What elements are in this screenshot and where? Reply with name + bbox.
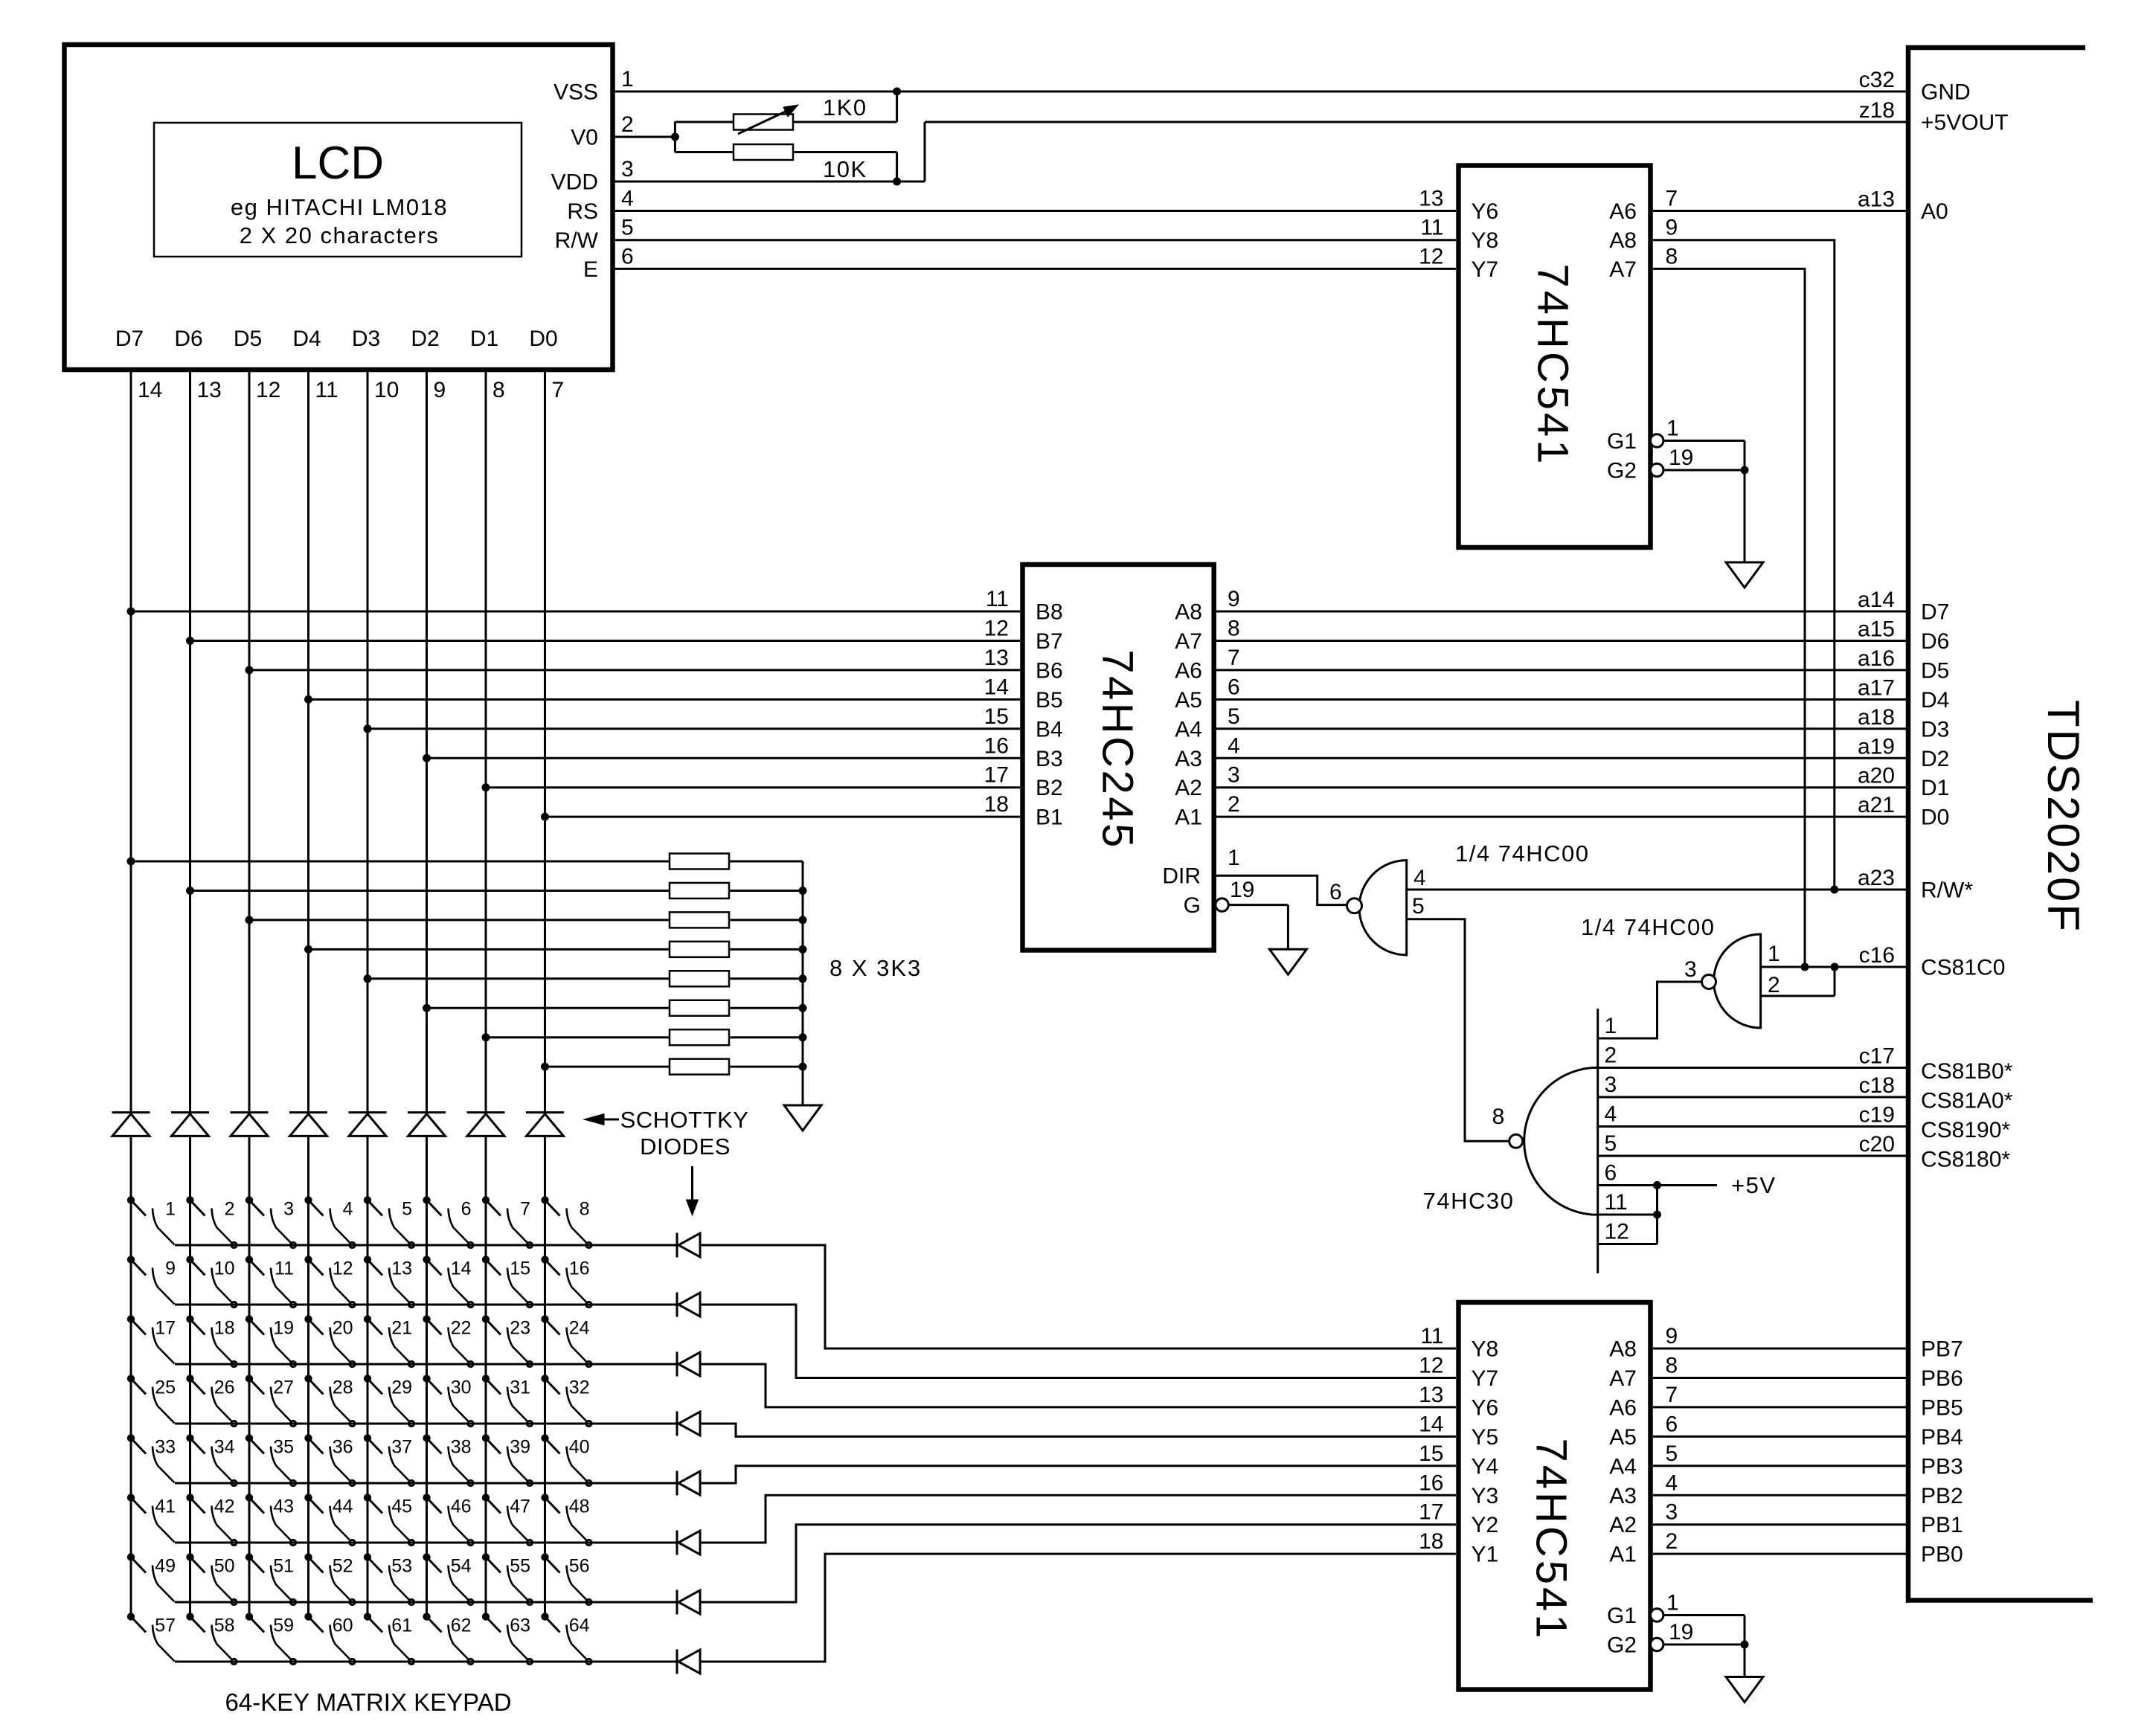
svg-text:1/4 74HC00: 1/4 74HC00 [1581, 914, 1715, 940]
svg-text:A2: A2 [1609, 1513, 1637, 1537]
svg-text:12: 12 [1419, 244, 1443, 269]
svg-text:c20: c20 [1859, 1132, 1895, 1157]
svg-text:VDD: VDD [551, 170, 598, 195]
wire D7 column [127, 370, 135, 1617]
svg-text:74HC541: 74HC541 [1529, 263, 1577, 466]
wire D4 to 74HC245 B5 [309, 698, 1021, 701]
key switch 18 [187, 1316, 237, 1367]
svg-text:5: 5 [1666, 1441, 1678, 1466]
74HC541 U1 right pins A6 A8 A7 [1609, 187, 1678, 282]
svg-text:PB4: PB4 [1921, 1425, 1963, 1450]
wire keypad row 1 [175, 1244, 677, 1247]
svg-text:8: 8 [1228, 616, 1240, 640]
wire keypad row 4 to 74HC541 Y5 [700, 1424, 1456, 1436]
diode schottky column D7 [112, 1113, 150, 1137]
svg-text:a18: a18 [1858, 705, 1895, 730]
svg-text:74HC541: 74HC541 [1527, 1438, 1576, 1641]
diode keypad row 6 [677, 1531, 700, 1555]
svg-text:R/W*: R/W* [1921, 878, 1973, 903]
trimmer 1K0 [675, 91, 896, 134]
svg-text:21: 21 [391, 1318, 412, 1339]
svg-text:22: 22 [451, 1318, 472, 1339]
wire D5 to pull-up resistor 3 [249, 919, 670, 921]
key switch 23 [482, 1316, 532, 1367]
svg-text:A7: A7 [1609, 257, 1637, 282]
IC U4 74HC30 8-input NAND body [1423, 1009, 1598, 1273]
svg-text:9: 9 [165, 1258, 176, 1279]
svg-text:A4: A4 [1609, 1454, 1637, 1479]
svg-text:53: 53 [391, 1556, 412, 1577]
svg-text:60: 60 [333, 1616, 353, 1636]
svg-text:55: 55 [510, 1556, 530, 1577]
diode keypad row 5 [677, 1471, 700, 1496]
wire resistor common bus [799, 861, 806, 1105]
IC U1 74HC541 body [1459, 166, 1651, 548]
svg-text:1: 1 [621, 67, 634, 91]
74HC245 DIR pin [1162, 846, 1347, 905]
svg-text:27: 27 [273, 1377, 294, 1398]
svg-text:12: 12 [984, 616, 1009, 640]
svg-text:43: 43 [273, 1497, 294, 1517]
wire D6 to pull-up resistor 2 [190, 890, 670, 892]
svg-text:11: 11 [275, 1258, 294, 1279]
svg-text:D6: D6 [174, 327, 202, 351]
svg-text:A0: A0 [1921, 199, 1948, 224]
diode keypad row 4 [677, 1412, 700, 1436]
svg-text:4: 4 [1605, 1102, 1617, 1127]
key switch 59 [246, 1613, 295, 1665]
wire D0 to 74HC245 B1 [545, 816, 1021, 818]
diode schottky column D2 [408, 1113, 446, 1137]
svg-text:Y3: Y3 [1472, 1484, 1499, 1508]
svg-text:6: 6 [621, 244, 634, 269]
svg-text:1: 1 [165, 1199, 176, 1220]
key switch 32 [542, 1375, 591, 1427]
key switch 44 [305, 1494, 355, 1546]
74HC541 U5 right pins A8-A1 [1609, 1324, 1678, 1567]
svg-text:1/4 74HC00: 1/4 74HC00 [1455, 840, 1589, 867]
svg-text:13: 13 [197, 378, 222, 402]
svg-text:58: 58 [214, 1616, 235, 1636]
wire GND net VSS to TDS c32 [613, 88, 1907, 95]
key switch 58 [187, 1613, 237, 1665]
wire D1 to 74HC245 B2 [486, 786, 1020, 788]
ground 74HC541 U1 G [1726, 562, 1763, 588]
svg-text:D2: D2 [1921, 747, 1949, 771]
svg-text:14: 14 [138, 378, 162, 402]
key switch 64 [542, 1613, 591, 1665]
svg-text:Y5: Y5 [1472, 1425, 1499, 1450]
LCD right pin names and numbers [551, 67, 634, 282]
svg-text:A5: A5 [1175, 688, 1202, 713]
svg-text:37: 37 [391, 1437, 412, 1458]
wire D7 to pull-up resistor 1 [131, 861, 670, 863]
wire keypad row 8 to 74HC541 Y1 [700, 1554, 1456, 1662]
svg-text:9: 9 [1666, 1324, 1678, 1348]
key switch 51 [246, 1554, 295, 1605]
wire D6 column [187, 370, 194, 1617]
key switch 7 [482, 1197, 532, 1248]
svg-text:7: 7 [552, 378, 565, 402]
svg-text:8: 8 [1666, 244, 1678, 269]
svg-text:+5VOUT: +5VOUT [1921, 111, 2009, 135]
IC U5 74HC541 body [1459, 1302, 1651, 1690]
wire D3 to 74HC245 B4 [368, 727, 1020, 730]
resistor 3K3 #3 [670, 912, 803, 928]
svg-text:Y8: Y8 [1472, 1337, 1499, 1362]
svg-text:Y8: Y8 [1472, 228, 1499, 253]
ground resistor bus [784, 1105, 821, 1131]
svg-text:B8: B8 [1036, 600, 1063, 625]
wire 74HC541 A4 to TDS PB3 [1653, 1465, 1906, 1467]
wire NAND pin4 R/W* to TDS a23 [1407, 886, 1906, 893]
wire E to 74HC541 Y7 [613, 268, 1457, 270]
svg-text:9: 9 [1666, 216, 1678, 240]
key switch 1 [127, 1197, 176, 1245]
svg-text:30: 30 [451, 1377, 472, 1398]
wire keypad row 2 to 74HC541 Y7 [700, 1305, 1456, 1377]
svg-text:A6: A6 [1609, 199, 1637, 224]
diode keypad row 1 [677, 1233, 700, 1258]
svg-text:16: 16 [984, 733, 1009, 758]
svg-text:c32: c32 [1859, 68, 1895, 92]
svg-text:3: 3 [1228, 763, 1240, 788]
svg-text:9: 9 [434, 378, 446, 402]
key switch 19 [246, 1316, 295, 1367]
svg-text:24: 24 [569, 1318, 590, 1339]
svg-text:E: E [583, 257, 598, 282]
svg-text:26: 26 [214, 1377, 235, 1398]
svg-text:18: 18 [214, 1318, 235, 1339]
svg-text:6: 6 [461, 1199, 472, 1220]
wire 74HC541 A1 to TDS PB0 [1653, 1553, 1906, 1555]
wire D1 column [482, 370, 490, 1617]
svg-text:61: 61 [391, 1616, 412, 1636]
key switch 6 [423, 1197, 473, 1248]
wire 74HC541 A6 to TDS PB5 [1653, 1406, 1906, 1408]
resistor 3K3 #4 [670, 942, 803, 957]
svg-text:D0: D0 [529, 327, 557, 351]
svg-text:48: 48 [569, 1497, 590, 1517]
svg-text:18: 18 [1419, 1529, 1443, 1554]
svg-text:Y6: Y6 [1472, 199, 1499, 224]
svg-text:PB5: PB5 [1921, 1395, 1963, 1420]
svg-text:64-KEY MATRIX KEYPAD: 64-KEY MATRIX KEYPAD [225, 1688, 511, 1716]
wire NAND2 output to 74HC30 pin1 [1598, 982, 1702, 1038]
wire 74HC541 A5 to TDS PB4 [1653, 1436, 1906, 1438]
key switch 60 [305, 1613, 355, 1665]
key switch 48 [542, 1494, 591, 1546]
key switch 43 [246, 1494, 295, 1546]
svg-text:A8: A8 [1609, 228, 1637, 253]
svg-text:D2: D2 [411, 327, 439, 351]
svg-text:D1: D1 [470, 327, 498, 351]
svg-text:Y7: Y7 [1472, 1366, 1499, 1391]
label 64-KEY MATRIX KEYPAD [225, 1688, 511, 1716]
wire keypad row 5 to 74HC541 Y4 [700, 1466, 1456, 1483]
key switch 26 [187, 1375, 237, 1427]
svg-text:36: 36 [333, 1437, 353, 1458]
svg-text:1: 1 [1768, 942, 1780, 966]
svg-text:19: 19 [1669, 1620, 1693, 1645]
svg-text:1: 1 [1666, 417, 1679, 441]
svg-text:10K: 10K [823, 156, 867, 182]
wire D1 to pull-up resistor 7 [486, 1036, 670, 1038]
svg-text:3: 3 [283, 1199, 294, 1220]
resistor 3K3 #1 [670, 854, 803, 869]
svg-text:B2: B2 [1036, 776, 1063, 800]
svg-text:A4: A4 [1175, 717, 1202, 742]
svg-text:3: 3 [1666, 1500, 1678, 1525]
key switch 4 [305, 1197, 355, 1248]
ground 74HC541 U5 G [1726, 1677, 1763, 1703]
svg-text:29: 29 [391, 1377, 412, 1398]
svg-text:11: 11 [1420, 216, 1443, 240]
diode keypad row 3 [677, 1352, 700, 1377]
svg-text:11: 11 [986, 587, 1009, 611]
svg-text:a19: a19 [1858, 734, 1895, 759]
svg-text:RS: RS [567, 199, 598, 224]
wire 74HC541 A8 to TDS PB7 [1653, 1348, 1906, 1350]
ground 74HC245 G [1269, 949, 1306, 974]
key switch 54 [423, 1554, 473, 1605]
svg-text:A7: A7 [1609, 1366, 1637, 1391]
svg-text:5: 5 [1412, 894, 1425, 919]
key switch 39 [482, 1435, 532, 1486]
svg-text:7: 7 [520, 1199, 530, 1220]
svg-text:1K0: 1K0 [823, 94, 867, 120]
LCD data pin labels D7-D0 and pin numbers 14-7 [115, 327, 564, 402]
wire keypad row 3 [175, 1363, 677, 1366]
key switch 40 [542, 1435, 591, 1486]
svg-text:13: 13 [1419, 187, 1443, 211]
svg-text:18: 18 [984, 792, 1009, 817]
svg-text:4: 4 [343, 1199, 353, 1220]
svg-text:34: 34 [214, 1437, 235, 1458]
svg-text:17: 17 [155, 1318, 176, 1339]
svg-text:6: 6 [1666, 1412, 1678, 1436]
wire 74HC245 A7 to TDS D6 [1216, 640, 1906, 642]
wire 74HC245 A2 to TDS D1 [1216, 786, 1906, 788]
svg-text:54: 54 [451, 1556, 472, 1577]
key switch 50 [187, 1554, 237, 1605]
svg-text:38: 38 [451, 1437, 472, 1458]
resistor 3K3 #5 [670, 971, 803, 986]
key switch 21 [364, 1316, 414, 1367]
key switch 61 [364, 1613, 414, 1665]
svg-text:59: 59 [273, 1616, 294, 1636]
svg-text:D5: D5 [234, 327, 262, 351]
svg-text:SCHOTTKY: SCHOTTKY [620, 1107, 749, 1133]
key switch 47 [482, 1494, 532, 1546]
svg-text:7: 7 [1228, 646, 1240, 670]
svg-text:15: 15 [510, 1258, 530, 1279]
svg-text:17: 17 [984, 763, 1009, 788]
diode keypad row 7 [677, 1590, 700, 1615]
svg-text:5: 5 [1228, 704, 1240, 729]
wire D2 column [423, 370, 431, 1617]
svg-text:25: 25 [155, 1377, 176, 1398]
svg-text:A1: A1 [1609, 1543, 1637, 1567]
diode schottky column D5 [231, 1113, 269, 1137]
svg-text:4: 4 [1666, 1470, 1678, 1495]
svg-text:23: 23 [510, 1318, 530, 1339]
74HC541 U5 left pins Y8-Y1 [1419, 1324, 1498, 1567]
wire 74HC541 A6 to TDS A0 [1653, 210, 1906, 212]
label 8 X 3K3 [829, 955, 922, 981]
svg-text:3: 3 [1684, 957, 1697, 982]
svg-text:PB0: PB0 [1921, 1543, 1963, 1567]
svg-text:G2: G2 [1607, 1633, 1637, 1658]
svg-text:Y6: Y6 [1472, 1395, 1499, 1420]
wire 74HC245 A5 to TDS D4 [1216, 698, 1906, 701]
svg-text:Y1: Y1 [1472, 1543, 1499, 1567]
wire keypad row 5 [175, 1482, 677, 1485]
svg-text:2: 2 [621, 112, 634, 137]
74HC245 left pin labels B8-B1 [984, 587, 1063, 830]
74HC30 input pin numbers [1605, 1014, 1629, 1244]
svg-text:B3: B3 [1036, 747, 1063, 771]
svg-text:40: 40 [569, 1437, 590, 1458]
svg-text:D1: D1 [1921, 776, 1949, 800]
wire keypad row 6 [175, 1542, 677, 1544]
svg-text:GND: GND [1921, 80, 1971, 105]
wire 74HC541 A7 to CS81C0 [1653, 269, 1805, 967]
svg-text:74HC30: 74HC30 [1423, 1188, 1515, 1214]
svg-text:35: 35 [273, 1437, 294, 1458]
wire keypad row 2 [175, 1304, 677, 1306]
key switch 56 [542, 1554, 591, 1605]
svg-text:G1: G1 [1607, 429, 1637, 454]
svg-text:6: 6 [1605, 1161, 1617, 1186]
svg-text:DIR: DIR [1162, 864, 1201, 889]
key switch 38 [423, 1435, 473, 1486]
svg-text:Y7: Y7 [1472, 257, 1499, 282]
svg-text:9: 9 [1228, 587, 1240, 611]
74HC245 right pin labels A8-A1 [1175, 587, 1239, 830]
svg-text:D5: D5 [1921, 658, 1949, 683]
wire D5 column [246, 370, 253, 1617]
key switch 22 [423, 1316, 473, 1367]
wire 74HC30 pin5 to TDS c20 [1598, 1155, 1906, 1157]
key switch 9 [127, 1256, 176, 1305]
svg-text:Y2: Y2 [1472, 1513, 1499, 1537]
svg-text:42: 42 [214, 1497, 235, 1517]
svg-text:57: 57 [155, 1616, 176, 1636]
wire D3 to pull-up resistor 5 [368, 977, 670, 980]
wire 74HC30 pin4 to TDS c19 [1598, 1125, 1906, 1128]
svg-text:a17: a17 [1858, 675, 1895, 700]
svg-text:11: 11 [1420, 1324, 1443, 1348]
svg-text:A7: A7 [1175, 629, 1202, 654]
svg-text:a21: a21 [1858, 793, 1895, 817]
key switch 30 [423, 1375, 473, 1427]
wire D0 to pull-up resistor 8 [545, 1066, 670, 1068]
74HC541 U1 left pins Y6 Y8 Y7 [1419, 187, 1498, 282]
svg-text:16: 16 [1419, 1470, 1443, 1495]
svg-text:G2: G2 [1607, 459, 1637, 483]
wire NAND2 pin1 CS81C0 to TDS c16 [1761, 963, 1906, 971]
wire D7 to 74HC245 B8 [131, 611, 1020, 613]
wire keypad row 4 [175, 1423, 677, 1425]
svg-text:LCD: LCD [292, 138, 384, 189]
wire D4 column [305, 370, 312, 1617]
label SCHOTTKY DIODES with arrows [584, 1107, 748, 1215]
key switch 53 [364, 1554, 414, 1605]
svg-text:a14: a14 [1858, 588, 1895, 612]
wire keypad row 7 to 74HC541 Y2 [700, 1525, 1456, 1602]
svg-text:7: 7 [1666, 1383, 1678, 1407]
svg-text:CS8190*: CS8190* [1921, 1118, 2010, 1142]
svg-text:12: 12 [1419, 1353, 1443, 1377]
key switch 37 [364, 1435, 414, 1486]
wire R/W to 74HC541 Y8 [613, 239, 1457, 241]
svg-text:47: 47 [510, 1497, 530, 1517]
key switch 12 [305, 1256, 355, 1308]
svg-text:A3: A3 [1175, 747, 1202, 771]
svg-text:15: 15 [984, 704, 1009, 729]
LCD module block [65, 45, 613, 370]
svg-text:3: 3 [1605, 1073, 1617, 1097]
svg-text:B7: B7 [1036, 629, 1063, 654]
svg-text:50: 50 [214, 1556, 235, 1577]
svg-text:31: 31 [510, 1377, 530, 1398]
TDS2020F pin labels and signal names [1858, 68, 2013, 1172]
svg-text:5: 5 [621, 216, 634, 240]
svg-text:6: 6 [1329, 880, 1342, 904]
svg-text:62: 62 [451, 1616, 472, 1636]
wire 74HC245 A4 to TDS D3 [1216, 727, 1906, 730]
key switch 29 [364, 1375, 414, 1427]
svg-text:10: 10 [214, 1258, 235, 1279]
key switch 27 [246, 1375, 295, 1427]
svg-text:39: 39 [510, 1437, 530, 1458]
svg-text:2: 2 [1228, 792, 1240, 817]
wire 74HC541 A3 to TDS PB2 [1653, 1494, 1906, 1497]
svg-text:44: 44 [333, 1497, 353, 1517]
IC TDS2020F outline [1906, 45, 2093, 1603]
svg-text:13: 13 [391, 1258, 412, 1279]
diode keypad row 2 [677, 1293, 700, 1317]
svg-text:16: 16 [569, 1258, 590, 1279]
svg-text:33: 33 [155, 1437, 176, 1458]
key switch 45 [364, 1494, 414, 1546]
wire 74HC30 pins 6 11 12 to +5V [1598, 1172, 1777, 1244]
svg-text:8: 8 [1492, 1105, 1505, 1129]
svg-text:1: 1 [1605, 1014, 1617, 1038]
svg-text:a15: a15 [1858, 617, 1895, 641]
svg-text:c18: c18 [1859, 1073, 1895, 1098]
svg-text:3: 3 [621, 157, 634, 181]
svg-text:12: 12 [333, 1258, 353, 1279]
svg-text:32: 32 [569, 1377, 590, 1398]
key switch 5 [364, 1197, 414, 1248]
svg-text:A6: A6 [1609, 1395, 1637, 1420]
svg-text:6: 6 [1228, 675, 1240, 699]
diode schottky column D1 [467, 1113, 505, 1137]
wire 74HC541 A2 to TDS PB1 [1653, 1523, 1906, 1526]
svg-text:8 X 3K3: 8 X 3K3 [829, 955, 922, 981]
wire V0 to pot junction [613, 122, 679, 152]
svg-text:VSS: VSS [553, 80, 598, 105]
wire keypad row 3 to 74HC541 Y6 [700, 1364, 1456, 1407]
svg-text:11: 11 [315, 378, 338, 402]
TDS2020F PB7-PB0 names [1921, 1337, 1963, 1567]
key switch 57 [127, 1613, 176, 1662]
svg-text:D0: D0 [1921, 806, 1949, 830]
svg-text:TDS2020F: TDS2020F [2038, 700, 2088, 933]
key switch 31 [482, 1375, 532, 1427]
